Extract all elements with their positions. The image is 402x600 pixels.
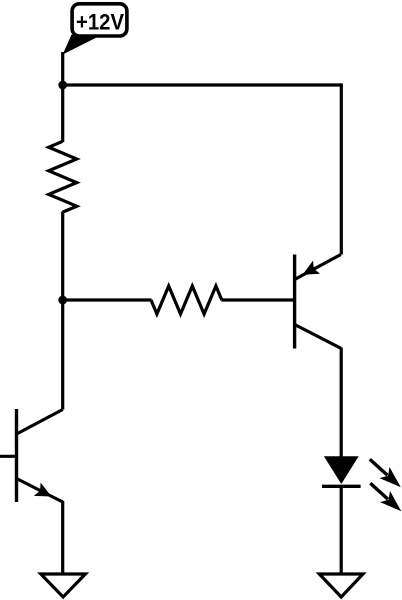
wire R1 bottom to node B <box>61 212 64 301</box>
wire right drop to Q2 emitter <box>340 83 343 254</box>
net +12V label <box>63 4 127 55</box>
wire node B to R2 left <box>63 298 152 301</box>
wire from +12V tail down to node A <box>61 52 64 85</box>
transistor Q1 (NPN) <box>0 409 63 502</box>
resistor R1 <box>49 141 77 212</box>
LED D1 <box>322 456 401 511</box>
wire LED to right ground <box>340 486 343 574</box>
transistor Q2 (PNP) <box>295 255 341 349</box>
wire top rail node A to right drop <box>63 83 342 86</box>
svg-text:+12V: +12V <box>76 10 124 35</box>
resistor R2 <box>151 286 222 314</box>
wire node B down to Q1 collector <box>61 300 64 410</box>
junction dot node B <box>58 296 67 305</box>
wire node A down to R1 top <box>61 85 64 142</box>
ground (left) <box>41 574 86 597</box>
wire Q2 collector down to LED <box>340 348 343 459</box>
junction dot node A <box>58 81 67 90</box>
ground (right) <box>319 574 363 597</box>
wire R2 right to Q2 base <box>221 298 294 301</box>
wire Q1 emitter to left ground <box>61 501 64 574</box>
